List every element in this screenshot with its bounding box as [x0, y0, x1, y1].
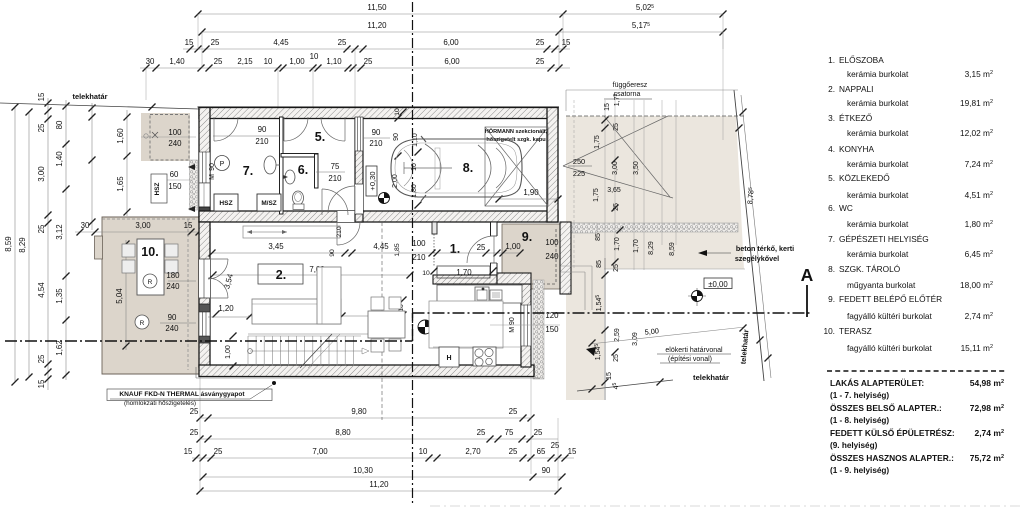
svg-text:+0,30: +0,30: [368, 171, 377, 190]
svg-text:80: 80: [55, 120, 64, 129]
wall room1-porch: [491, 222, 498, 275]
svg-text:15,11 m2: 15,11 m2: [961, 343, 993, 353]
svg-text:kerámia burkolat: kerámia burkolat: [847, 159, 909, 169]
forecourt top dashed: [566, 115, 745, 117]
svg-text:TERASZ: TERASZ: [839, 326, 872, 336]
svg-text:FEDETT BELÉPŐ ELŐTÉR: FEDETT BELÉPŐ ELŐTÉR: [839, 294, 942, 304]
svg-text:75: 75: [331, 162, 340, 171]
svg-text:műgyanta burkolat: műgyanta burkolat: [847, 280, 916, 290]
svg-text:HSZ: HSZ: [154, 183, 161, 196]
svg-text:(1 - 8. helyiség): (1 - 8. helyiség): [830, 416, 889, 425]
svg-text:25: 25: [613, 354, 620, 362]
door opening corridor-garage wall: [355, 184, 363, 214]
svg-text:60: 60: [170, 170, 179, 179]
svg-text:fagyálló kültéri burkolat: fagyálló kültéri burkolat: [847, 343, 933, 353]
section line A-A left: [5, 340, 413, 342]
svg-text:3.: 3.: [828, 113, 835, 123]
svg-text:fagyálló kültéri burkolat: fagyálló kültéri burkolat: [847, 311, 933, 321]
svg-text:10,30: 10,30: [353, 466, 373, 475]
svg-text:11,20: 11,20: [369, 480, 389, 489]
svg-text:9.: 9.: [828, 294, 835, 304]
staircase treads: [247, 336, 249, 366]
svg-text:ELŐSZOBA: ELŐSZOBA: [839, 55, 884, 65]
chain 1,54 2,59: [604, 258, 606, 400]
svg-text:ÖSSZES BELSŐ ALAPTER.:: ÖSSZES BELSŐ ALAPTER.:: [830, 402, 942, 413]
svg-text:telekhatár: telekhatár: [73, 92, 108, 101]
svg-text:2,70: 2,70: [465, 447, 481, 456]
interior dim chain y253: [212, 252, 520, 254]
garage door X: [485, 127, 548, 206]
dim 25 1,00 ticks: [500, 250, 507, 257]
svg-text:90: 90: [393, 133, 400, 141]
svg-text:15: 15: [604, 103, 611, 111]
svg-text:11,50: 11,50: [367, 3, 387, 12]
svg-text:1,75: 1,75: [593, 188, 600, 202]
kitchen vent: [490, 290, 502, 300]
svg-text:1.: 1.: [450, 242, 460, 256]
svg-text:1,00: 1,00: [505, 242, 521, 251]
forecourt chain ticks: [602, 117, 609, 124]
knauf note: [107, 389, 272, 401]
sofa room2: [252, 299, 341, 324]
porch room 9 floor: [502, 224, 560, 289]
svg-text:6.: 6.: [828, 203, 835, 213]
svg-text:90: 90: [168, 313, 177, 322]
svg-text:7.: 7.: [828, 234, 835, 244]
svg-text:hőszigetelt szgk. kapu: hőszigetelt szgk. kapu: [486, 137, 546, 143]
svg-text:HÖRMANN szekcionált,: HÖRMANN szekcionált,: [485, 128, 548, 135]
section line A-A right: [413, 312, 813, 314]
pier blocks left wall: [199, 304, 210, 312]
legend separator: [827, 370, 1007, 372]
room 2 label: [258, 264, 303, 284]
svg-text:25: 25: [338, 38, 347, 47]
pier left wall: [199, 207, 210, 215]
north symbol room3: [418, 320, 432, 334]
svg-text:100: 100: [545, 238, 559, 247]
svg-text:KÖZLEKEDŐ: KÖZLEKEDŐ: [839, 173, 890, 183]
svg-text:75,72 m2: 75,72 m2: [970, 453, 1004, 463]
svg-text:1,10: 1,10: [326, 57, 342, 66]
svg-text:P: P: [220, 161, 225, 168]
svg-text:12,02 m2: 12,02 m2: [960, 128, 993, 138]
svg-text:15: 15: [184, 447, 193, 456]
svg-text:25: 25: [551, 441, 560, 450]
svg-text:240: 240: [166, 282, 180, 291]
svg-text:1,20: 1,20: [218, 304, 234, 313]
svg-text:elökerti határvonal: elökerti határvonal: [665, 347, 723, 354]
svg-text:5,00: 5,00: [644, 326, 659, 336]
svg-text:8,29: 8,29: [18, 237, 27, 253]
door opening top-wing bottom wall: [337, 211, 360, 222]
wall left upper exterior: [199, 108, 210, 223]
staircase walk line: [250, 350, 362, 352]
dim 5,04 terrace: [125, 240, 127, 350]
svg-text:1,90: 1,90: [523, 188, 539, 197]
svg-text:7,00: 7,00: [312, 447, 328, 456]
svg-text:3,00: 3,00: [135, 221, 151, 230]
staircase break line: [300, 334, 332, 368]
dim 5,00 slanted: [590, 327, 745, 344]
svg-text:25: 25: [37, 354, 46, 363]
stove: [473, 347, 496, 366]
dim chain3 left: [47, 98, 49, 390]
svg-text:1,35: 1,35: [55, 288, 64, 304]
kitchen counter bottom: [433, 346, 522, 348]
door arc room7: [214, 117, 238, 141]
svg-text:KNAUF FKD-N THERMAL ásványgyap: KNAUF FKD-N THERMAL ásványgyapot: [119, 391, 245, 398]
svg-text:25: 25: [364, 57, 373, 66]
svg-text:SZGK. TÁROLÓ: SZGK. TÁROLÓ: [839, 264, 901, 274]
wall garage right exterior: [547, 108, 558, 223]
wall porch east: [560, 222, 571, 294]
svg-text:±0,00: ±0,00: [708, 280, 728, 289]
porch steps outline: [561, 265, 592, 267]
garage dim ticks: [395, 115, 402, 122]
dim 9,80 bottom: [200, 417, 531, 419]
north symbol garage: [379, 193, 390, 204]
pebble strip porch top: [571, 223, 597, 233]
svg-text:ÖSSZES HASZNOS ALAPTER.:: ÖSSZES HASZNOS ALAPTER.:: [830, 453, 954, 463]
svg-text:15: 15: [606, 372, 613, 380]
pebble strip forecourt south: [566, 223, 738, 232]
svg-text:210: 210: [336, 226, 343, 238]
svg-text:85: 85: [596, 260, 603, 268]
wall room7-6: [280, 117, 284, 214]
door arcs terrace: [208, 259, 228, 279]
svg-text:25: 25: [477, 428, 486, 437]
wall corridor-garage: [355, 118, 363, 222]
svg-text:függőeresz: függőeresz: [613, 82, 648, 89]
svg-text:kerámia burkolat: kerámia burkolat: [847, 249, 909, 259]
svg-text:90: 90: [258, 125, 267, 134]
forecourt ext lines: [573, 100, 575, 270]
svg-text:1,00: 1,00: [225, 345, 232, 359]
svg-text:10.: 10.: [823, 326, 835, 336]
svg-text:25: 25: [477, 243, 486, 252]
svg-text:15: 15: [37, 379, 46, 388]
forecourt fan line 3: [604, 116, 670, 197]
window kitchen right: [521, 305, 531, 346]
svg-text:100: 100: [412, 239, 426, 248]
svg-text:90: 90: [372, 128, 381, 137]
kitchen sink: [475, 287, 489, 302]
wall room1 west stub: [432, 222, 437, 234]
svg-text:A: A: [801, 265, 814, 285]
svg-text:6,00: 6,00: [444, 57, 460, 66]
svg-text:18,00 m2: 18,00 m2: [960, 280, 993, 290]
svg-text:2,59: 2,59: [614, 328, 621, 342]
svg-text:(1 - 9. helyiség): (1 - 9. helyiség): [830, 466, 889, 475]
svg-text:4.: 4.: [828, 144, 835, 154]
svg-text:FEDETT KÜLSŐ ÉPÜLETRÉSZ:: FEDETT KÜLSŐ ÉPÜLETRÉSZ:: [830, 427, 955, 438]
svg-text:150: 150: [545, 325, 559, 334]
svg-text:9.: 9.: [522, 230, 532, 244]
dim 8,29 left: [28, 112, 30, 377]
svg-text:54,98 m2: 54,98 m2: [970, 378, 1004, 388]
svg-text:25: 25: [613, 123, 620, 131]
plus 0,30 kitchen: [434, 309, 462, 320]
dim chain5 left: [91, 103, 93, 230]
svg-text:ÉTKEZŐ: ÉTKEZŐ: [839, 113, 873, 123]
svg-text:3,50: 3,50: [633, 161, 640, 175]
svg-text:HSZ: HSZ: [219, 200, 232, 207]
svg-text:25: 25: [214, 447, 223, 456]
telekhatar top-left: [0, 103, 199, 109]
svg-text:90: 90: [542, 466, 551, 475]
svg-text:8,29: 8,29: [648, 241, 655, 255]
dining chairs: [371, 297, 384, 310]
svg-text:25: 25: [509, 447, 518, 456]
wall lower-left exterior: [199, 222, 210, 367]
dim 11,20: [202, 31, 559, 33]
terrace door opening: [199, 259, 210, 298]
svg-text:2,15: 2,15: [237, 57, 253, 66]
svg-text:kerámia burkolat: kerámia burkolat: [847, 69, 909, 79]
wall room1 south: [433, 275, 497, 284]
boiler P circle: [215, 156, 230, 171]
terrace chair R1: [143, 274, 157, 288]
svg-text:szegélykővel: szegélykővel: [735, 254, 779, 263]
svg-text:3,12: 3,12: [55, 224, 64, 239]
svg-text:1,70: 1,70: [456, 268, 472, 277]
svg-text:1,00: 1,00: [289, 57, 305, 66]
svg-text:1,65: 1,65: [116, 176, 125, 192]
terrace overhang dashed: [102, 218, 196, 220]
svg-text:telekhatár: telekhatár: [693, 373, 729, 382]
svg-text:4,54: 4,54: [37, 282, 46, 298]
svg-text:25: 25: [37, 224, 46, 233]
svg-text:1,70: 1,70: [633, 239, 640, 253]
svg-text:(építési vonal): (építési vonal): [668, 356, 712, 363]
property corner lines: [722, 32, 724, 140]
svg-text:30: 30: [146, 57, 155, 66]
top extension lines: [197, 14, 199, 49]
garage dashed line: [381, 222, 383, 420]
svg-text:R: R: [148, 279, 153, 286]
insulation outline bottom: [196, 377, 540, 379]
section line A-A jog: [412, 313, 414, 341]
svg-text:10.: 10.: [141, 245, 158, 259]
svg-text:210: 210: [369, 139, 383, 148]
svg-text:25: 25: [37, 123, 46, 132]
gutter line: [566, 89, 738, 91]
svg-text:M: M: [209, 174, 216, 180]
telekhatar bottom line: [577, 380, 673, 391]
svg-text:3,65: 3,65: [607, 187, 621, 194]
svg-text:4,45: 4,45: [273, 38, 289, 47]
svg-text:240: 240: [168, 139, 182, 148]
svg-text:180: 180: [166, 271, 180, 280]
svg-text:kerámia burkolat: kerámia burkolat: [847, 190, 909, 200]
svg-text:3,45: 3,45: [268, 242, 284, 251]
dining table: [368, 311, 405, 338]
MSZ appliance: [257, 194, 281, 211]
svg-text:(9. helyiség): (9. helyiség): [830, 441, 878, 450]
car body: [391, 139, 522, 197]
svg-text:8.: 8.: [463, 161, 473, 175]
door arc hall: [337, 222, 360, 245]
svg-text:1,75: 1,75: [594, 135, 601, 149]
svg-text:240: 240: [545, 252, 559, 261]
svg-text:(1 - 7. helyiség): (1 - 7. helyiség): [830, 391, 889, 400]
svg-text:65: 65: [537, 447, 546, 456]
svg-text:15: 15: [37, 92, 46, 101]
svg-text:3,00: 3,00: [612, 161, 619, 175]
entry door arc: [467, 236, 494, 263]
dim 5,02-5: [563, 13, 723, 15]
svg-text:2,74 m2: 2,74 m2: [974, 428, 1004, 438]
svg-text:210: 210: [412, 253, 426, 262]
terrace table: [137, 239, 164, 295]
HSZ appliance: [214, 194, 238, 211]
wc toilet: [293, 191, 304, 205]
dim 10,30 bottom: [203, 476, 562, 478]
svg-text:kerámia burkolat: kerámia burkolat: [847, 128, 909, 138]
svg-text:8.: 8.: [828, 264, 835, 274]
svg-text:19,81 m2: 19,81 m2: [960, 98, 993, 108]
svg-text:100: 100: [168, 128, 182, 137]
svg-text:1,62: 1,62: [55, 340, 64, 355]
window left wall: [199, 152, 210, 183]
svg-text:75: 75: [505, 428, 514, 437]
svg-text:1.: 1.: [828, 55, 835, 65]
dim row3 top: [183, 48, 570, 50]
svg-text:6,00: 6,00: [443, 38, 459, 47]
svg-text:85: 85: [595, 233, 602, 241]
svg-text:8,80: 8,80: [335, 428, 351, 437]
dim row4 top: [140, 67, 570, 69]
svg-text:R: R: [140, 320, 145, 327]
svg-text:25: 25: [190, 428, 199, 437]
svg-text:4,51 m2: 4,51 m2: [965, 190, 993, 200]
svg-text:25: 25: [211, 38, 220, 47]
svg-text:8,59: 8,59: [4, 236, 13, 252]
svg-text:8,59: 8,59: [669, 242, 676, 256]
door M90 left wall: [199, 183, 210, 207]
svg-text:7,24 m2: 7,24 m2: [965, 159, 993, 169]
north symbol forecourt: [696, 288, 698, 306]
dim chain4 left: [65, 100, 67, 380]
kitchen counter top: [437, 285, 522, 303]
dim 1,60 1,65: [126, 110, 128, 216]
car center line: [404, 167, 452, 169]
door arc room5 left: [284, 117, 308, 141]
svg-text:GÉPÉSZETI HELYISÉG: GÉPÉSZETI HELYISÉG: [839, 234, 929, 244]
svg-text:1,60: 1,60: [116, 128, 125, 144]
svg-text:5.: 5.: [828, 173, 835, 183]
svg-text:240: 240: [165, 324, 179, 333]
svg-text:25: 25: [190, 407, 199, 416]
forecourt fan line 2: [563, 166, 673, 198]
terrace chair R2: [135, 315, 149, 329]
svg-text:11,20: 11,20: [367, 21, 387, 30]
kitchen leader line: [490, 324, 560, 326]
door arc room5 right: [321, 117, 345, 141]
svg-text:1,40: 1,40: [169, 57, 185, 66]
svg-text:90: 90: [329, 249, 336, 257]
basin room6: [285, 170, 295, 184]
pebble strip left of wall: [190, 160, 198, 210]
svg-text:6.: 6.: [298, 163, 308, 177]
svg-text:1,40: 1,40: [55, 151, 64, 167]
door arc wc: [322, 189, 348, 215]
entry door opening: [490, 236, 498, 263]
svg-text:M/SZ: M/SZ: [261, 200, 276, 207]
svg-text:(homlokzati hőszigetelés): (homlokzati hőszigetelés): [124, 400, 196, 407]
terrace grill nook: [95, 236, 103, 259]
svg-text:kerámia burkolat: kerámia burkolat: [847, 219, 909, 229]
elokert arrow: [586, 347, 596, 356]
dim line 8,78: [741, 95, 771, 378]
svg-text:150: 150: [168, 182, 182, 191]
svg-text:10: 10: [419, 447, 428, 456]
svg-text:25: 25: [214, 57, 223, 66]
dim 11,20 bottom: [200, 490, 558, 492]
svg-text:5.: 5.: [315, 130, 325, 144]
svg-text:10: 10: [422, 270, 430, 277]
wall kitchen right: [521, 284, 531, 367]
svg-text:15: 15: [568, 447, 577, 456]
svg-text:LAKÁS ALAPTERÜLET:: LAKÁS ALAPTERÜLET:: [830, 377, 924, 388]
svg-text:kerámia burkolat: kerámia burkolat: [847, 98, 909, 108]
svg-text:KONYHA: KONYHA: [839, 144, 875, 154]
window left wall lower: [199, 312, 210, 336]
wall bottom exterior: [199, 365, 534, 377]
svg-text:3,00: 3,00: [37, 166, 46, 182]
plus 0,30 garage: [366, 166, 377, 196]
svg-text:10: 10: [310, 52, 319, 61]
window corridor-garage wall: [355, 117, 363, 151]
svg-text:30: 30: [81, 221, 90, 230]
svg-text:5,04: 5,04: [115, 288, 124, 304]
dim 3,00 30 15 row: [75, 231, 205, 233]
svg-text:15: 15: [185, 38, 194, 47]
svg-text:25: 25: [536, 38, 545, 47]
svg-text:250: 250: [573, 157, 585, 166]
svg-text:1,80 m2: 1,80 m2: [965, 219, 993, 229]
svg-text:225: 225: [573, 169, 585, 178]
door arc corridor-garage: [328, 186, 355, 213]
terrace chairs: [122, 244, 135, 257]
car windshield: [425, 144, 441, 193]
dim 8,59 left: [14, 107, 16, 382]
svg-text:NAPPALI: NAPPALI: [839, 84, 873, 94]
dim 5,17-5: [559, 31, 723, 33]
kitchen island: [429, 301, 503, 348]
telekhatar right slanted: [734, 90, 764, 381]
svg-text:9,80: 9,80: [351, 407, 367, 416]
svg-text:25: 25: [536, 57, 545, 66]
car mirrors: [421, 136, 426, 142]
closet 1,70: [437, 266, 490, 278]
svg-text:7.: 7.: [243, 164, 253, 178]
dim 7,00 bottom: [192, 457, 574, 459]
dim 8,80 bottom: [200, 438, 558, 440]
svg-text:210: 210: [255, 137, 269, 146]
wall room6 east: [315, 154, 319, 188]
basin room7: [264, 156, 276, 174]
svg-text:25: 25: [509, 407, 518, 416]
wall kitchen northeast step: [497, 273, 531, 284]
svg-text:2.: 2.: [828, 84, 835, 94]
plusminus 0,00: [704, 278, 732, 289]
svg-text:210: 210: [328, 174, 342, 183]
forecourt fan line 1: [563, 116, 668, 166]
wall top-wing bottom: [199, 211, 558, 222]
svg-text:1,85: 1,85: [394, 243, 401, 256]
wall room6 north: [281, 154, 318, 158]
